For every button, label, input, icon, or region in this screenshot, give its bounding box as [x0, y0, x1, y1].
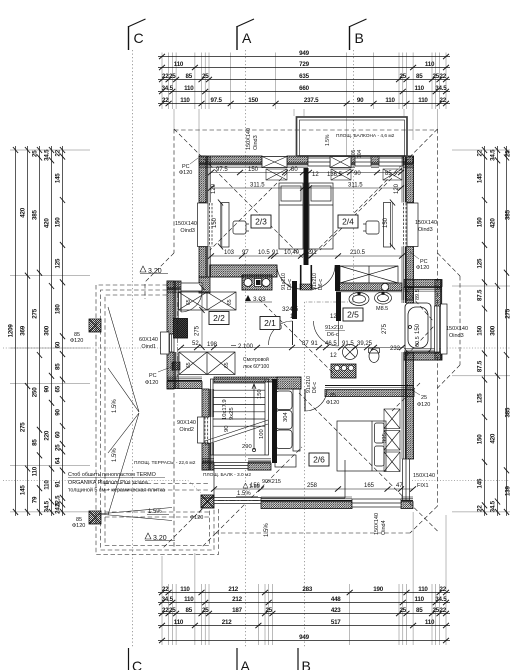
roof hip diagonals upper — [174, 129, 438, 261]
svg-text:420: 420 — [489, 218, 496, 228]
svg-text:369: 369 — [19, 325, 26, 335]
svg-text:25: 25 — [202, 607, 209, 614]
bay bottom wall — [404, 349, 442, 361]
grid axis line A — [245, 50, 247, 648]
dims 2/5 — [302, 341, 401, 352]
svg-text:ПЛОЩ. БАЛКОНА - 4,6 м2: ПЛОЩ. БАЛКОНА - 4,6 м2 — [336, 133, 395, 139]
top dimension row openings — [158, 101, 450, 106]
bedside shelf 2/6 box3 — [384, 452, 400, 472]
svg-text:2/1: 2/1 — [264, 318, 276, 328]
left dimension col 2 — [25, 146, 30, 516]
svg-text:1.5%: 1.5% — [237, 491, 251, 497]
casement swing box 1 — [266, 169, 287, 180]
door hall to 2/2 — [269, 321, 293, 345]
bed room 2/4 — [309, 183, 333, 249]
svg-text:46.5: 46.5 — [325, 341, 337, 347]
radiator 2/4 — [384, 203, 391, 248]
bathtub bay — [405, 303, 431, 352]
window label Oind2 — [177, 420, 196, 433]
svg-text:34.5: 34.5 — [43, 149, 50, 161]
balcony bottom door frame — [214, 498, 261, 504]
interior wall hall|2/6 top — [277, 377, 301, 389]
svg-text:B: B — [355, 30, 364, 46]
svg-text:420: 420 — [19, 207, 26, 217]
interior wall 2/6 left — [272, 379, 277, 463]
grid axis line C — [132, 50, 134, 648]
svg-text:85: 85 — [385, 171, 392, 177]
svg-text:91,5: 91,5 — [342, 341, 354, 347]
svg-text:FIX1: FIX1 — [417, 483, 429, 489]
svg-text:150: 150 — [248, 167, 259, 173]
svg-text:25: 25 — [505, 150, 511, 157]
svg-text:люк 60*100: люк 60*100 — [243, 364, 269, 370]
window label FIX1 — [413, 473, 435, 489]
svg-text:25: 25 — [169, 73, 176, 80]
svg-text:385: 385 — [31, 209, 38, 219]
svg-text:85: 85 — [416, 607, 423, 614]
dim line openings right room — [306, 170, 404, 175]
svg-text:212: 212 — [222, 619, 232, 626]
svg-text:87: 87 — [302, 341, 309, 347]
svg-text:150X140: 150X140 — [413, 473, 435, 479]
svg-text:90: 90 — [224, 426, 230, 432]
dotted leader left upper — [3, 347, 167, 349]
svg-text:C: C — [132, 658, 142, 670]
balcony door opening top 2 — [355, 158, 371, 166]
level mark 1.55 balcony — [243, 483, 260, 490]
svg-text:A: A — [242, 30, 252, 46]
window dim line right — [390, 200, 395, 250]
post label lower — [72, 517, 85, 529]
exterior wall right lower — [402, 360, 414, 459]
svg-text:D6-c: D6-c — [318, 279, 324, 290]
bottom wall 2/6 seg1 — [261, 497, 352, 509]
dim line 311.5 right — [306, 185, 404, 190]
bay top wall — [404, 280, 442, 292]
svg-text:110: 110 — [425, 61, 435, 68]
door hall to 2/6 — [305, 389, 327, 411]
svg-text:300: 300 — [489, 325, 496, 335]
hall dimension line — [178, 345, 405, 350]
svg-text:M8.5: M8.5 — [376, 306, 388, 312]
svg-text:304: 304 — [283, 412, 289, 422]
svg-text:2/6: 2/6 — [313, 455, 325, 465]
svg-text:275: 275 — [19, 422, 26, 432]
svg-text:12: 12 — [330, 314, 337, 320]
svg-text:34.5: 34.5 — [162, 85, 174, 92]
svg-text:139: 139 — [505, 485, 511, 495]
svg-text:949: 949 — [299, 634, 309, 641]
door bedroom 2/4 arc — [311, 265, 335, 289]
stool room 2/3 — [233, 221, 249, 234]
svg-text:150: 150 — [476, 325, 483, 335]
svg-text:25: 25 — [31, 150, 38, 157]
insulation annotation — [68, 472, 165, 494]
stool room 2/4 — [363, 221, 379, 234]
bottom dimension row 949 — [158, 638, 450, 643]
window top X-box 2 — [330, 157, 351, 168]
svg-text:395: 395 — [382, 433, 388, 443]
interior wall below bedrooms right stub — [335, 265, 340, 291]
left dimension col 3 — [37, 146, 42, 516]
exterior wall mid-left top — [167, 281, 181, 293]
svg-text:D6-c: D6-c — [327, 332, 339, 338]
svg-text:10.5: 10.5 — [258, 250, 270, 256]
roof bay eave bump — [438, 253, 461, 388]
roof eave outline — [145, 129, 438, 551]
door sill block center — [300, 284, 312, 290]
svg-text:385: 385 — [505, 407, 511, 417]
svg-text:232: 232 — [390, 346, 401, 352]
balcony top — [297, 117, 408, 156]
wardrobe 2/2 labels — [186, 299, 233, 305]
svg-text:1.5%: 1.5% — [112, 448, 118, 462]
svg-text:150: 150 — [212, 217, 218, 228]
svg-text:91: 91 — [310, 250, 317, 256]
svg-text:91: 91 — [54, 480, 61, 487]
hall bottom wall seg2 — [248, 459, 271, 471]
svg-text:22: 22 — [476, 149, 483, 156]
svg-text:212: 212 — [232, 596, 242, 603]
svg-text:283: 283 — [302, 586, 312, 593]
door bedroom 2/3 arc — [277, 265, 301, 289]
svg-text:10,40: 10,40 — [284, 250, 300, 256]
bedside shelf 2/6 box2 — [384, 431, 400, 451]
svg-text:517: 517 — [331, 619, 341, 626]
post label upper — [70, 332, 83, 344]
window dim line left — [218, 200, 223, 250]
bench 2/2 labels — [186, 362, 230, 368]
room label 2/4 — [338, 215, 358, 228]
dim row under bedrooms — [224, 250, 366, 256]
vent block hall — [242, 275, 272, 290]
svg-text:150X140: 150X140 — [446, 326, 468, 332]
svg-text:110: 110 — [415, 85, 425, 92]
window Oind4 bottom — [352, 499, 401, 507]
grid axis B jog — [304, 301, 354, 303]
svg-text:Oind4: Oind4 — [381, 520, 387, 535]
svg-text:34.5: 34.5 — [489, 500, 496, 512]
svg-text:34.5: 34.5 — [489, 149, 496, 161]
svg-text:64: 64 — [54, 457, 61, 464]
svg-text:79: 79 — [31, 496, 38, 503]
bed room 2/3 — [279, 183, 303, 249]
grid axis line B lower — [304, 302, 306, 648]
svg-text:423: 423 — [331, 607, 341, 614]
svg-text:1209: 1209 — [7, 324, 14, 338]
svg-text:729: 729 — [299, 61, 309, 68]
svg-text:110: 110 — [418, 586, 428, 593]
svg-text:91x210: 91x210 — [325, 325, 343, 331]
corner wall block entry — [199, 277, 210, 293]
interior wall bathroom bottom — [325, 386, 414, 397]
svg-text:3.20: 3.20 — [153, 535, 167, 542]
exterior wall top seg3 — [351, 156, 355, 168]
interior wall below bedrooms left — [210, 265, 277, 277]
svg-text:Oind3: Oind3 — [180, 228, 195, 234]
left dimension col 4 — [49, 146, 54, 516]
balcony rotated dim — [351, 149, 363, 158]
exterior wall top seg4 — [371, 156, 379, 168]
window top X-box 1 — [262, 157, 287, 168]
bedside shelf 2/6 box1 — [384, 409, 400, 429]
post label terrace wall — [145, 367, 171, 386]
svg-text:110: 110 — [385, 97, 395, 104]
svg-text:275: 275 — [31, 308, 38, 318]
svg-text:145: 145 — [19, 485, 26, 495]
svg-text:87.5: 87.5 — [476, 360, 483, 372]
balcony window opening top right — [379, 158, 403, 166]
post label right bay top — [410, 252, 429, 271]
svg-text:25: 25 — [202, 73, 209, 80]
svg-text:22: 22 — [476, 505, 483, 512]
svg-text:85: 85 — [31, 439, 38, 446]
grid axis A top flag — [237, 19, 254, 50]
dim line 311.5 left — [208, 185, 306, 190]
dim line 2/2 vertical — [199, 284, 204, 350]
grid axis C bottom letter — [129, 648, 143, 670]
terrace slope triangle upper — [98, 307, 172, 521]
grid axis B bottom letter — [298, 648, 311, 670]
svg-text:104: 104 — [357, 149, 363, 158]
svg-text:180: 180 — [54, 304, 61, 314]
dotted leader right upper — [444, 347, 510, 349]
exterior wall mid-left bottom — [167, 377, 202, 389]
door bedroom 2/3 leaf — [300, 265, 302, 289]
window label Oind4 rotated — [374, 513, 387, 535]
window Oind1 (60x140) — [161, 332, 175, 354]
svg-text:125: 125 — [476, 258, 483, 268]
bench 2/2 — [179, 352, 235, 375]
post label Ф120 bottom — [190, 507, 204, 521]
washer block — [331, 364, 356, 378]
bay right wall seg2 — [435, 352, 442, 360]
entry door opening — [181, 283, 202, 291]
dotted leader right FIX1 — [412, 480, 510, 482]
right dimension col mid — [495, 146, 500, 516]
svg-text:Oind3: Oind3 — [449, 333, 464, 339]
post label eave corner — [179, 158, 198, 176]
svg-text:65: 65 — [186, 362, 192, 368]
exterior wall top seg2 — [287, 156, 308, 168]
svg-text:660: 660 — [299, 85, 309, 92]
door label 91x210 D6-c rotated — [306, 376, 318, 393]
svg-text:Ф120: Ф120 — [417, 402, 430, 408]
bay window Oind3 (150) — [435, 304, 448, 354]
window label Oind1 — [139, 337, 158, 350]
dim row balcony bottom — [250, 483, 403, 489]
exterior wall mid-left seg1 — [167, 281, 179, 334]
svg-text:150: 150 — [383, 217, 389, 228]
svg-text:A: A — [241, 658, 251, 670]
svg-text:60: 60 — [54, 341, 61, 348]
svg-text:150X140: 150X140 — [246, 128, 252, 150]
kneewall dashdot 2/2 — [177, 293, 179, 377]
svg-text:87.5: 87.5 — [476, 289, 483, 301]
balcony door 90x215 — [214, 463, 248, 469]
svg-text:110: 110 — [174, 61, 184, 68]
dim line openings left room — [208, 170, 306, 175]
room label 2/6 — [309, 453, 329, 466]
window FIX1 — [403, 459, 410, 500]
window label Oind3 right — [415, 220, 437, 233]
svg-text:110: 110 — [184, 85, 194, 92]
svg-text:97.5: 97.5 — [216, 167, 228, 173]
exterior wall left upper seg1 — [199, 156, 211, 203]
bottom dimension extension lines — [162, 512, 446, 645]
svg-text:220: 220 — [43, 430, 50, 440]
door label 91x210 D6-c — [325, 325, 345, 338]
top dimension row 635 — [158, 77, 450, 82]
svg-text:1.5%: 1.5% — [325, 134, 331, 146]
svg-text:210.5: 210.5 — [350, 250, 366, 256]
exterior wall right mid seg2 — [402, 352, 414, 360]
svg-text:275: 275 — [382, 323, 388, 334]
svg-text:145: 145 — [54, 173, 61, 183]
dim 12 labels — [290, 250, 337, 359]
svg-text:2.100: 2.100 — [238, 344, 254, 350]
balcony bottom post — [201, 495, 214, 508]
svg-text:34.5: 34.5 — [162, 596, 174, 603]
right dimension col inner — [482, 146, 487, 516]
dim row under top wall — [216, 167, 392, 189]
left dimension extension lines — [10, 150, 90, 512]
svg-text:190: 190 — [373, 586, 383, 593]
svg-text:2/4: 2/4 — [342, 217, 354, 227]
top dimension row 729 — [158, 65, 450, 70]
svg-text:65: 65 — [186, 299, 192, 305]
svg-text:385: 385 — [505, 209, 511, 219]
svg-text:949: 949 — [299, 50, 309, 57]
top dimension extension lines — [162, 53, 446, 157]
svg-text:91: 91 — [311, 341, 318, 347]
svg-text:324.5: 324.5 — [282, 306, 299, 313]
basin 1 bathroom — [349, 292, 369, 305]
exterior wall right upper seg1 — [402, 156, 414, 203]
svg-text:110: 110 — [180, 97, 190, 104]
svg-text:448: 448 — [331, 596, 341, 603]
bottom dimension row 4 — [158, 623, 450, 628]
svg-text:150X140: 150X140 — [415, 220, 437, 226]
svg-text:52: 52 — [192, 341, 199, 347]
svg-text:25: 25 — [421, 395, 427, 401]
interior wall center upper — [304, 168, 309, 265]
grid axis C top flag — [129, 19, 146, 50]
dim line under bedrooms — [208, 253, 405, 258]
shaft band bathroom top — [336, 283, 402, 292]
svg-text:22: 22 — [439, 586, 446, 593]
grid axis A bottom letter — [237, 648, 251, 670]
svg-text:толщиной 5 см + керамическая п: толщиной 5 см + керамическая плитка — [68, 487, 165, 494]
svg-text:РС: РС — [149, 373, 157, 379]
hall clearance 2.100 — [231, 344, 254, 350]
sofa 2/6 — [276, 389, 300, 451]
svg-text:120: 120 — [394, 183, 400, 194]
svg-text:150X140: 150X140 — [175, 221, 197, 227]
svg-text:300: 300 — [43, 325, 50, 335]
svg-text:1.5%: 1.5% — [264, 523, 270, 537]
right dimension extension lines — [452, 150, 510, 512]
interior wall 2/2|hall — [292, 281, 297, 319]
terrace slope labels — [112, 399, 270, 537]
svg-text:22: 22 — [54, 149, 61, 156]
svg-text:150: 150 — [248, 97, 258, 104]
stove block 2/2 — [174, 319, 188, 339]
svg-text:22: 22 — [439, 607, 446, 614]
svg-text:90X215: 90X215 — [262, 479, 281, 485]
svg-text:110: 110 — [418, 97, 428, 104]
svg-text:80: 80 — [291, 167, 298, 173]
svg-text:39,25: 39,25 — [357, 341, 373, 347]
svg-text:Ф120: Ф120 — [70, 338, 83, 344]
room label 2/3 — [251, 215, 271, 228]
terrace post upper — [89, 319, 101, 332]
bay window label — [446, 326, 468, 339]
svg-text:ПЛОЩ. БАЛК - 3.0 м2: ПЛОЩ. БАЛК - 3.0 м2 — [203, 472, 251, 478]
exterior wall top seg5 — [403, 156, 413, 168]
svg-text:Ф120: Ф120 — [416, 265, 429, 271]
svg-text:90: 90 — [54, 409, 61, 416]
exterior wall top seg1 — [199, 156, 262, 168]
entry door arc — [181, 291, 202, 312]
svg-text:90: 90 — [43, 385, 50, 392]
window Oind3 left (150) — [198, 203, 213, 247]
svg-text:1.5%: 1.5% — [112, 399, 118, 413]
shower bathroom — [343, 345, 358, 360]
svg-text:12: 12 — [290, 314, 297, 320]
svg-text:D6-c: D6-c — [312, 382, 318, 393]
svg-text:60X140: 60X140 — [139, 337, 158, 343]
terrace post lower — [89, 511, 101, 524]
svg-text:136.5: 136.5 — [327, 172, 343, 178]
exterior wall lower-left seg2 — [202, 443, 214, 470]
svg-text:145: 145 — [476, 478, 483, 488]
svg-text:Oind3: Oind3 — [418, 227, 433, 233]
post label right bay bottom — [412, 390, 430, 408]
svg-text:25: 25 — [54, 444, 61, 451]
balcony bottom slope label — [236, 491, 258, 497]
svg-text:22: 22 — [439, 73, 446, 80]
svg-text:Oind3: Oind3 — [253, 135, 259, 150]
svg-text:9x25: 9x25 — [229, 407, 235, 420]
table 2/6 — [275, 455, 296, 467]
level mark 3.03 hall — [245, 295, 299, 313]
bottom dimension row 2 — [158, 600, 450, 605]
bottom wall 2/6 corner — [401, 497, 413, 509]
svg-text:Ф120: Ф120 — [145, 380, 158, 386]
svg-text:Ф120: Ф120 — [72, 523, 85, 529]
svg-text:Ф120: Ф120 — [190, 515, 203, 521]
svg-text:110: 110 — [180, 586, 190, 593]
svg-text:22: 22 — [439, 97, 446, 104]
svg-text:ORGANIKA Platinum Plus sciana: ORGANIKA Platinum Plus sciana — [68, 480, 148, 486]
svg-text:110: 110 — [43, 480, 50, 490]
svg-text:B: B — [302, 658, 311, 670]
svg-text:34.5: 34.5 — [43, 500, 50, 512]
post label left of washer — [326, 393, 339, 406]
svg-text:237.5: 237.5 — [304, 97, 319, 104]
svg-text:110: 110 — [184, 596, 194, 603]
top dimension row 660 — [158, 89, 450, 94]
svg-text:25: 25 — [400, 607, 407, 614]
bottom dimension row 3 — [158, 611, 450, 616]
svg-text:Стоб обшить пенопластом TERMO: Стоб обшить пенопластом TERMO — [68, 472, 156, 478]
svg-text:Oind2: Oind2 — [179, 427, 194, 433]
svg-text:150: 150 — [415, 323, 421, 334]
wardrobe 2/2 top — [179, 292, 237, 310]
svg-text:635: 635 — [299, 73, 309, 80]
svg-text:22: 22 — [162, 97, 169, 104]
